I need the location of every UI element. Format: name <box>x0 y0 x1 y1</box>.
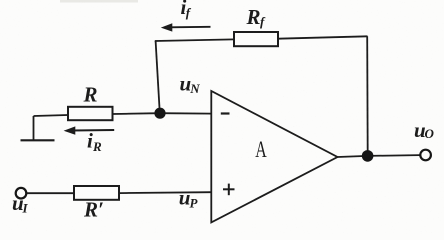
wire output node to terminal <box>368 154 420 157</box>
wire R to node uN <box>113 112 161 115</box>
scan smudge top edge <box>60 0 138 3</box>
output terminal uO <box>420 150 431 161</box>
op-amp minus sign <box>221 112 230 114</box>
ground <box>21 116 55 140</box>
wire right vertical down to output node <box>366 36 369 156</box>
resistor R <box>68 107 113 120</box>
wire R' to op-amp plus input <box>119 191 211 194</box>
op-amp A triangle <box>211 91 337 222</box>
output node junction dot <box>362 150 374 162</box>
input terminal u1 <box>16 188 27 199</box>
wire feedback left vertical <box>156 41 160 110</box>
wire node to op-amp minus input <box>160 112 211 114</box>
wire op-amp output to node <box>338 156 368 157</box>
wire input terminal to R' <box>27 192 74 194</box>
op-amp plus sign <box>223 184 235 196</box>
wire ground to R <box>34 115 69 116</box>
resistor Rf <box>234 32 278 46</box>
wire Rf to right corner <box>278 36 368 38</box>
resistor R' <box>74 186 119 200</box>
wire top left to Rf <box>155 39 234 41</box>
current arrow iR <box>64 126 115 134</box>
node uN junction dot <box>154 108 165 119</box>
current arrow if <box>161 23 211 31</box>
